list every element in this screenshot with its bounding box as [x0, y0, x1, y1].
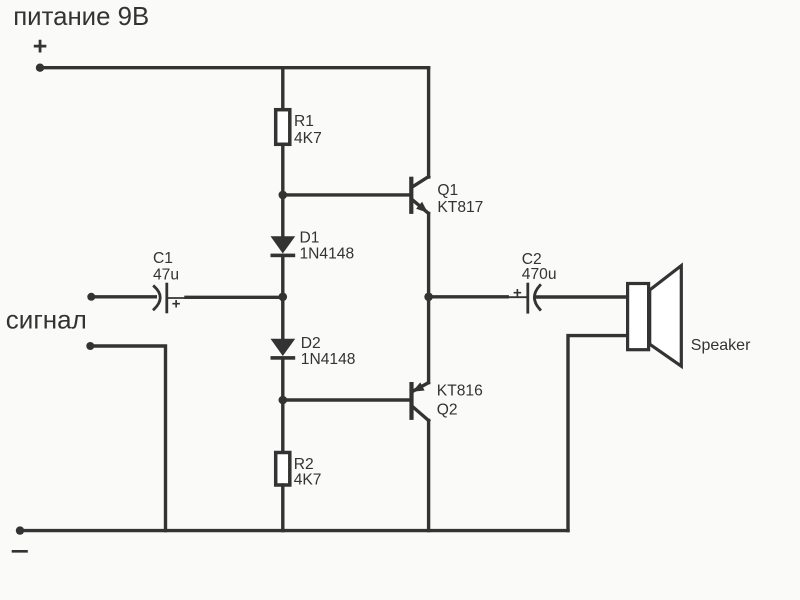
wire speaker return [568, 336, 627, 531]
resistor R1 [276, 110, 290, 145]
resistor R2 [276, 453, 290, 486]
svg-text:сигнал: сигнал [6, 305, 87, 335]
wire input return [90, 346, 165, 531]
wire Q2 base [283, 398, 410, 401]
speaker [628, 266, 682, 367]
wire bottom rail [20, 529, 568, 532]
wire C1 to node B [167, 297, 187, 299]
node A [279, 191, 288, 200]
node input top [87, 293, 95, 301]
svg-text:D1: D1 [300, 230, 320, 247]
svg-text:470u: 470u [522, 266, 557, 283]
node + terminal [36, 63, 44, 71]
transistor Q2 [412, 382, 429, 420]
diode D2 [271, 339, 296, 360]
wire node C to R2 [281, 400, 284, 453]
wire node D to Q2 emitter [427, 297, 430, 383]
minus label [13, 550, 27, 553]
node C [279, 396, 288, 405]
svg-text:Q2: Q2 [437, 401, 458, 418]
node - terminal [16, 526, 24, 534]
capacitor C1 [154, 284, 181, 312]
svg-text:Q1: Q1 [437, 182, 458, 199]
svg-text:4K7: 4K7 [294, 471, 322, 488]
diode D1 [271, 236, 296, 257]
wire Q1 base [283, 193, 410, 196]
wire input to C1 [91, 295, 155, 298]
svg-text:+: + [513, 284, 522, 301]
node input bottom [86, 342, 94, 350]
svg-text:4K7: 4K7 [294, 130, 322, 147]
transistor Q1 [411, 177, 428, 214]
capacitor C2 [513, 284, 540, 312]
svg-text:1N4148: 1N4148 [300, 246, 355, 263]
svg-text:47u: 47u [153, 267, 179, 284]
wire node B to D2 [281, 297, 284, 340]
node D [424, 293, 433, 302]
wire R1 to node A [281, 144, 284, 195]
svg-text:KT817: KT817 [437, 199, 483, 216]
svg-text:+: + [33, 33, 48, 61]
svg-text:C1: C1 [153, 250, 173, 267]
wire rail to R1 [281, 68, 284, 110]
wire Q2 collector to rail [427, 421, 430, 531]
wire R2 to bottom rail [281, 485, 284, 531]
wire right vertical top [427, 68, 430, 177]
svg-text:питание 9В: питание 9В [13, 3, 149, 31]
svg-text:D2: D2 [301, 335, 321, 352]
svg-text:1N4148: 1N4148 [301, 351, 356, 368]
wire node A to D1 [281, 195, 284, 237]
svg-text:Speaker: Speaker [691, 337, 751, 354]
wire C2 to speaker [536, 295, 628, 298]
wire top rail [40, 66, 429, 69]
wire D1 to node B [281, 256, 284, 297]
wire node D to C2 [429, 295, 508, 298]
svg-text:R1: R1 [294, 113, 314, 130]
node B [279, 293, 288, 302]
wire Q1 emitter to node D [427, 214, 430, 297]
wire D2 to node C [281, 359, 284, 401]
svg-text:KT816: KT816 [437, 383, 483, 400]
